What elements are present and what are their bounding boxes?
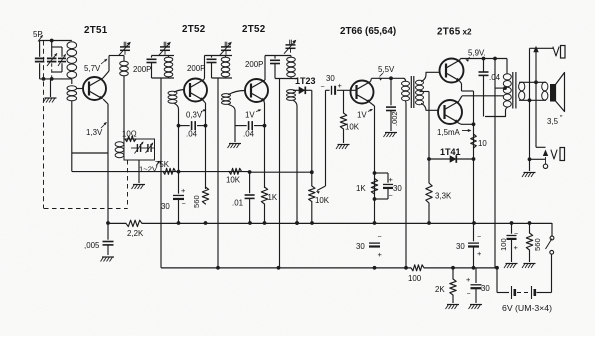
svg-text:1T41: 1T41 xyxy=(440,147,461,157)
svg-text:+: + xyxy=(514,243,519,252)
svg-text:2T52: 2T52 xyxy=(182,24,206,35)
svg-text:+: + xyxy=(389,175,394,184)
svg-text:200P: 200P xyxy=(187,64,205,73)
svg-text:30: 30 xyxy=(393,184,402,193)
svg-text:10: 10 xyxy=(478,139,487,148)
svg-text:3,3K: 3,3K xyxy=(435,192,452,201)
svg-text:5,5V: 5,5V xyxy=(378,65,395,74)
svg-text:560: 560 xyxy=(192,195,201,208)
svg-text:−: − xyxy=(467,291,471,298)
svg-text:1V: 1V xyxy=(357,111,367,120)
svg-text:30: 30 xyxy=(161,202,170,211)
svg-text:2T65: 2T65 xyxy=(437,27,461,38)
svg-text:0,3V: 0,3V xyxy=(186,111,203,120)
svg-text:2T66 (65,64): 2T66 (65,64) xyxy=(340,26,396,37)
svg-text:−: − xyxy=(378,234,382,241)
svg-text:1,5mA: 1,5mA xyxy=(437,128,461,137)
svg-text:10K: 10K xyxy=(345,123,360,132)
svg-text:75K: 75K xyxy=(155,160,170,169)
svg-text:30: 30 xyxy=(356,242,365,251)
svg-text:,005: ,005 xyxy=(84,241,100,250)
svg-text:30: 30 xyxy=(456,242,465,251)
svg-text:1T23: 1T23 xyxy=(295,76,316,86)
svg-text:+: + xyxy=(466,275,471,284)
svg-text:2,2K: 2,2K xyxy=(127,229,144,238)
svg-text:+: + xyxy=(181,186,186,195)
svg-text:2K: 2K xyxy=(435,285,445,294)
svg-text:−: − xyxy=(514,231,518,238)
svg-text:1V: 1V xyxy=(245,111,255,120)
svg-text:100: 100 xyxy=(408,274,422,283)
svg-text:30: 30 xyxy=(326,74,335,83)
svg-text:−: − xyxy=(477,234,481,241)
svg-text:.04: .04 xyxy=(186,130,198,139)
svg-text:+: + xyxy=(477,249,482,258)
svg-text:.002: .002 xyxy=(390,111,399,126)
svg-text:.01: .01 xyxy=(232,199,243,208)
svg-text:1,3V: 1,3V xyxy=(86,128,103,137)
svg-text:5,7V: 5,7V xyxy=(84,64,101,73)
svg-text:+: + xyxy=(378,250,383,259)
svg-text:560: 560 xyxy=(533,238,542,251)
svg-text:+: + xyxy=(338,81,343,90)
svg-text:10Ω: 10Ω xyxy=(122,130,137,139)
svg-text:−: − xyxy=(389,193,393,200)
svg-text:−: − xyxy=(321,84,325,91)
svg-text:200P: 200P xyxy=(245,60,263,69)
svg-text:.04: .04 xyxy=(243,130,255,139)
svg-text:1K: 1K xyxy=(356,184,366,193)
svg-text:2T51: 2T51 xyxy=(84,25,108,36)
svg-text:x2: x2 xyxy=(463,28,473,37)
svg-text:30: 30 xyxy=(481,284,490,293)
svg-text:100: 100 xyxy=(499,238,508,251)
svg-text:200P: 200P xyxy=(133,65,151,74)
svg-text:10K: 10K xyxy=(226,176,241,185)
svg-text:1K: 1K xyxy=(268,193,278,202)
svg-text:3,5: 3,5 xyxy=(547,117,559,126)
svg-text:10K: 10K xyxy=(315,196,330,205)
svg-text:6V (UM-3×4): 6V (UM-3×4) xyxy=(502,303,552,313)
svg-text:2T52: 2T52 xyxy=(242,24,266,35)
svg-text:5,9V.: 5,9V. xyxy=(468,49,486,58)
svg-text:−: − xyxy=(182,201,186,208)
